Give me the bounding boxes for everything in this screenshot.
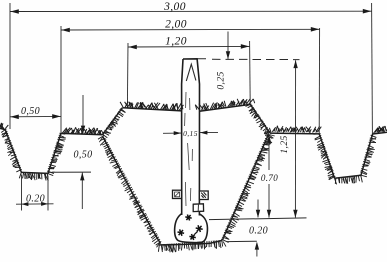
ground surface between left ditch and berm [61, 133, 103, 134]
dimension 0.25 arrow line [226, 32, 230, 60]
hatching berm right face [246, 104, 271, 137]
stone symbol 2 [178, 229, 185, 235]
ground hatching far left [0, 123, 8, 129]
ground hatching right of berm [269, 126, 321, 133]
svg-text:0.20: 0.20 [249, 226, 268, 237]
berm right face [250, 104, 270, 133]
dimension 1.25 label (rotated) [280, 135, 290, 153]
stone symbol 1 [185, 215, 191, 221]
berm top surface right of pole [200, 104, 251, 111]
stone symbol 3 [196, 225, 203, 232]
hatching pit bottom [158, 240, 226, 253]
dimension 2.00 label [165, 19, 187, 31]
ground hatching left of berm [62, 127, 103, 134]
dimension 0.70 label [261, 173, 278, 183]
ground surface far left [0, 128, 5, 129]
svg-text:0,15: 0,15 [183, 129, 198, 138]
svg-text:1,20: 1,20 [165, 36, 187, 48]
dimension 0.20 left line [16, 202, 54, 206]
hatching right ditch right slope [360, 135, 377, 177]
extension line right of 2.00 [318, 28, 320, 134]
extension line right of 1.20 [249, 41, 252, 104]
svg-text:0.70: 0.70 [261, 173, 278, 183]
pole tip chevron [186, 64, 196, 81]
svg-text:2,00: 2,00 [165, 19, 187, 31]
right ditch right slope [361, 134, 373, 175]
pole outline [182, 59, 200, 216]
left ditch right slope [48, 133, 61, 173]
dimension 0.50 depth lower arrow [80, 172, 84, 209]
dimension 0.20 right upper arrow [256, 200, 260, 218]
hatching left ditch left slope [1, 129, 22, 172]
left ditch bottom width extension lines [22, 175, 49, 211]
svg-text:1,25: 1,25 [280, 135, 290, 153]
svg-text:0,50: 0,50 [21, 106, 40, 117]
right cleat on pole [199, 191, 208, 200]
hatching right ditch left slope [314, 134, 336, 180]
berm left face [103, 108, 123, 135]
dimension 0.20 right label [249, 226, 268, 237]
svg-text:3,00: 3,00 [163, 1, 186, 13]
hatching pit right bank [221, 134, 275, 243]
pole top level line solid part [197, 58, 206, 60]
pole grain lines [185, 92, 193, 206]
svg-text:0,50: 0,50 [73, 150, 92, 161]
dimension 0.15 left arrow [163, 131, 181, 135]
dimension 0.20 left label [26, 194, 45, 205]
pit right bank [223, 134, 269, 239]
pit bottom [160, 240, 223, 245]
dimension 0.70 line upper part [267, 135, 271, 170]
dimension 0.25 label (rotated) [217, 71, 227, 89]
ground hatching far right [374, 126, 387, 133]
berm top hatching right of pole [195, 99, 254, 111]
dimension 0.70 line lower part [267, 184, 271, 218]
hatching left ditch right slope [46, 133, 65, 175]
dimension 1.20 line [128, 44, 250, 49]
dimension 3.00 line [10, 9, 372, 14]
berm top surface left of pole [122, 108, 181, 111]
dimension 0.50 top-left label [21, 106, 40, 117]
pit left bank [103, 137, 161, 244]
dimension 0.15 right arrow [200, 131, 218, 135]
hatching right ditch bottom [334, 175, 362, 184]
berm top hatching left of pole [120, 102, 183, 111]
dimension 1.20 label [165, 36, 187, 48]
stone anchor block outline [175, 214, 208, 243]
dimension 0.15 label [183, 129, 198, 138]
hatching pit left bank [98, 136, 161, 248]
right ditch left slope [319, 134, 334, 178]
stone top level extension line [209, 218, 307, 220]
extension line right of 3.00 [371, 3, 374, 134]
lower wedge cleat on pole [193, 204, 203, 212]
hatching berm left face [102, 108, 126, 138]
dimension 0.20 right lower arrow [255, 242, 259, 257]
svg-text:0.20: 0.20 [26, 194, 45, 205]
extension line left of 3.00 [9, 3, 11, 129]
ground surface far right [373, 132, 387, 134]
extension line left of 2.00 [60, 26, 62, 133]
dimension 0.50 depth upper arrow [81, 95, 85, 134]
right ditch bottom [335, 175, 361, 178]
stone symbol dash [195, 232, 198, 235]
left cleat on pole [173, 190, 182, 198]
dimension 1.25 line [293, 60, 298, 218]
dimension 0.50 top-left line [10, 114, 61, 119]
hatching left ditch bottom [19, 172, 48, 181]
ground surface between berm and right ditch [270, 132, 319, 135]
dimension 2.00 line [61, 27, 320, 32]
svg-text:0,25: 0,25 [217, 71, 227, 89]
ditch bottom level extension line [52, 171, 91, 173]
dimension 3.00 label [163, 1, 186, 13]
extension line left of 1.20 [126, 43, 129, 108]
left ditch left slope [5, 130, 21, 173]
pole top level dashed line [212, 58, 300, 60]
dimension 0.50 depth label [73, 150, 92, 161]
stone symbol 4 [189, 234, 195, 240]
left ditch bottom [21, 172, 48, 173]
pit bottom level extension line right [227, 240, 257, 242]
